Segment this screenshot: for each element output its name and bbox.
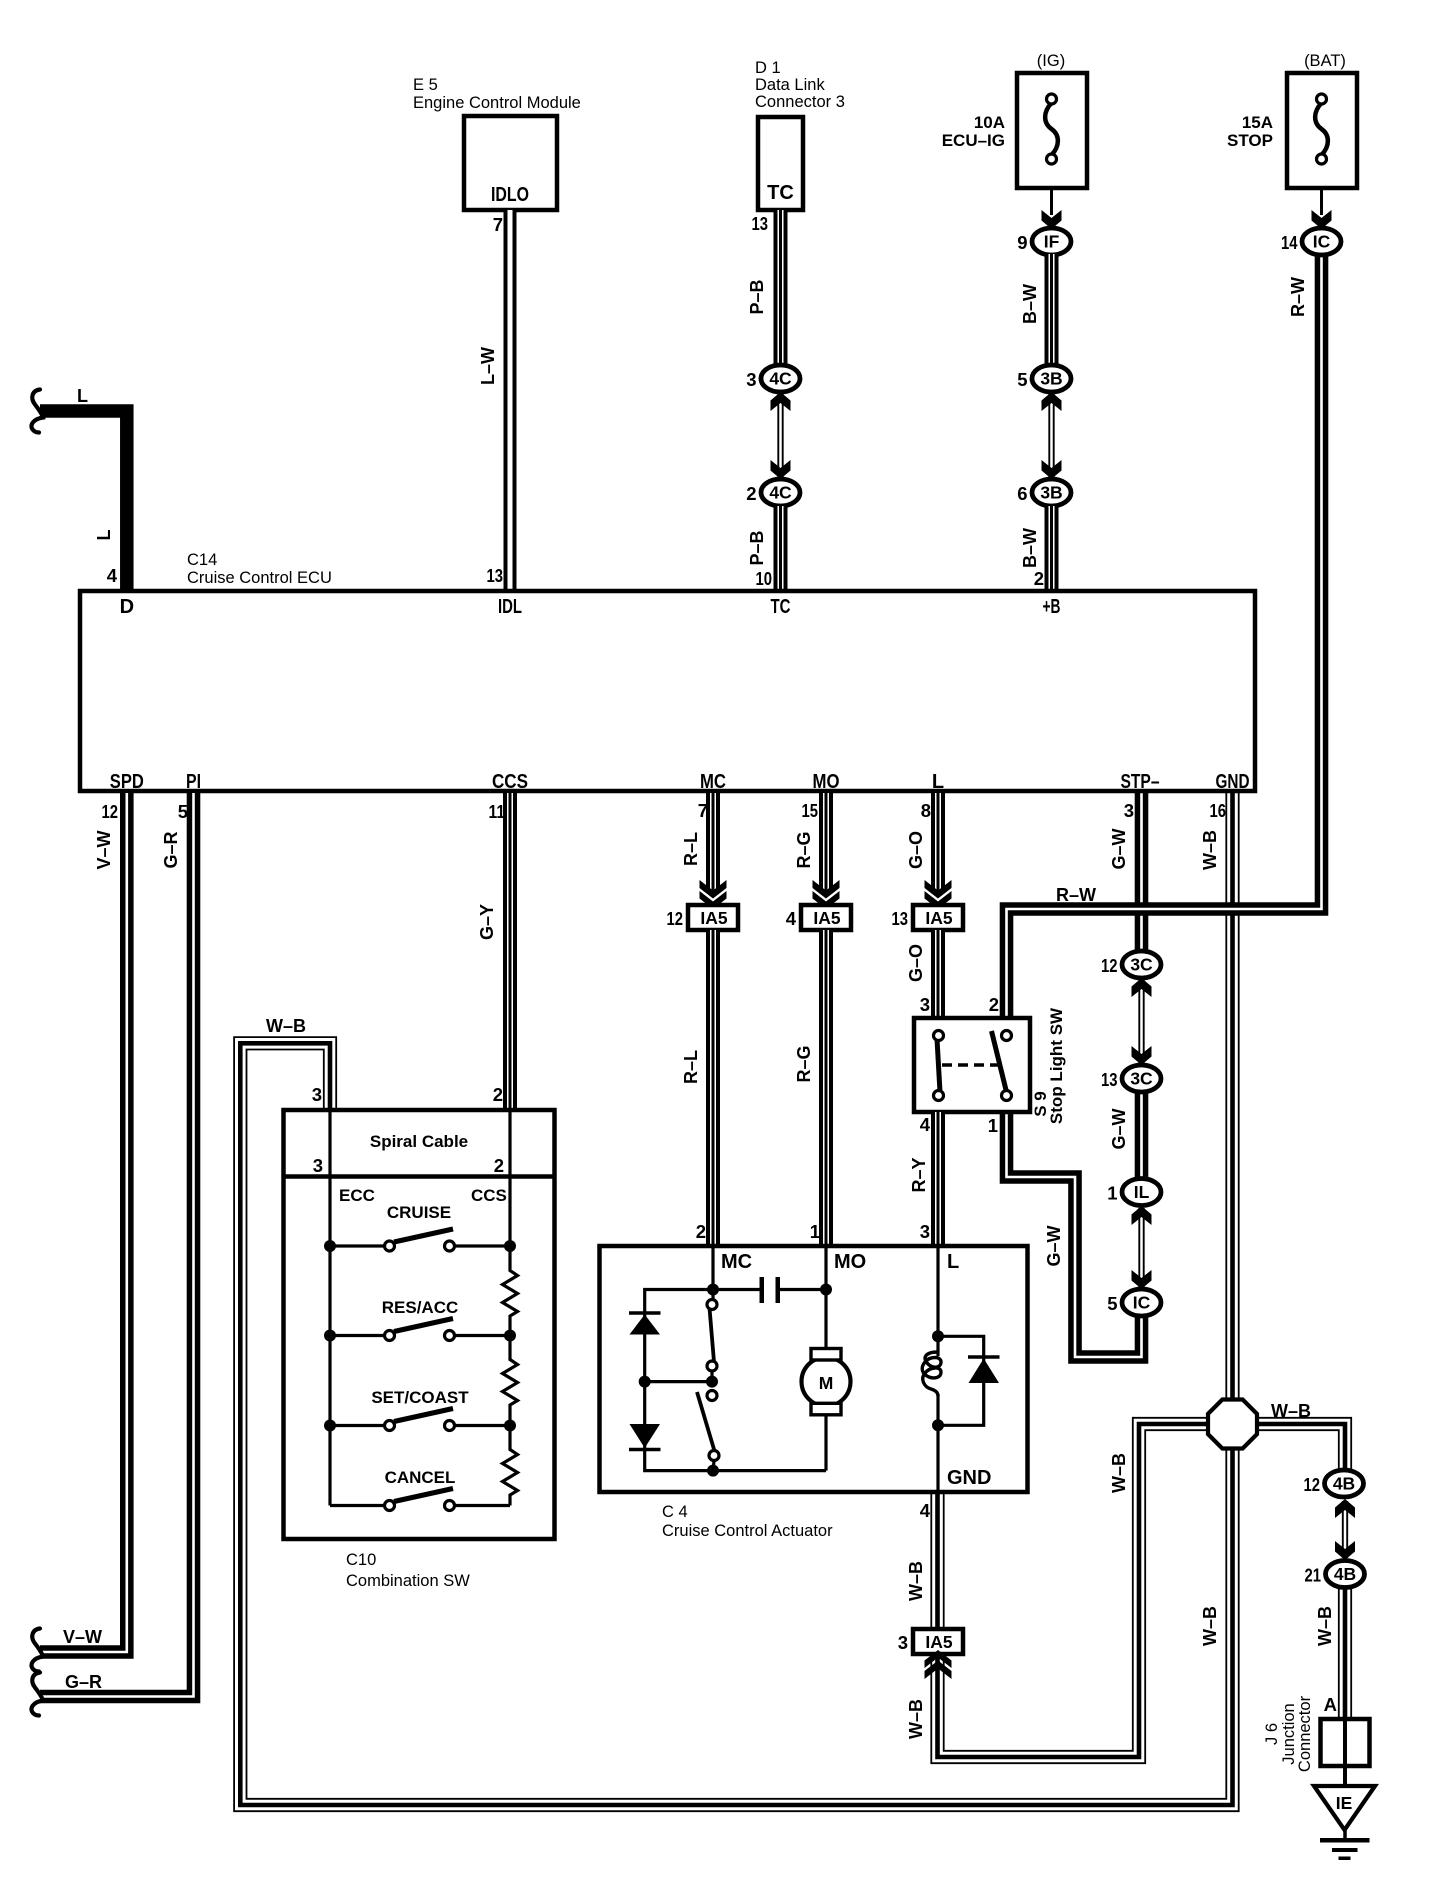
wire switch row right — [455, 1334, 511, 1337]
svg-text:4C: 4C — [769, 369, 792, 389]
stop light SW contact pin 3 — [934, 1031, 944, 1041]
svg-text:R–G: R–G — [794, 1045, 814, 1082]
svg-text:B–W: B–W — [1020, 528, 1040, 568]
svg-text:E 5: E 5 — [413, 76, 438, 94]
svg-text:W–B: W–B — [1200, 1606, 1220, 1646]
harness continuation brace (G-R) — [31, 1673, 43, 1716]
arrow into 13 IA5 — [925, 880, 952, 909]
harness continuation brace (V-W) — [31, 1629, 43, 1672]
connector 13 IA5 — [913, 905, 963, 930]
wire R-G from ECU MO pin 15 to 4 IA5 — [819, 793, 833, 891]
fuse 10A ECU-IG — [1017, 73, 1087, 188]
svg-text:M: M — [819, 1373, 834, 1393]
svg-text:Cruise Control ECU: Cruise Control ECU — [187, 569, 332, 587]
wire switch row left — [330, 1424, 385, 1427]
arrow into 3 4C — [771, 392, 791, 411]
connector 12 4B — [1325, 1470, 1364, 1497]
wire switch row left — [330, 1504, 385, 1507]
svg-text:(IG): (IG) — [1037, 52, 1065, 70]
svg-text:Engine Control Module: Engine Control Module — [413, 94, 581, 112]
wire B-W from 6 3B to ECU +B pin 2 — [1045, 506, 1059, 591]
svg-text:2: 2 — [494, 1155, 504, 1176]
stop light SW contact pin 1 — [1002, 1091, 1012, 1101]
arrow into 14 IC — [1312, 210, 1332, 229]
connector 9 IF — [1032, 228, 1071, 255]
wire switch row right — [455, 1504, 511, 1507]
svg-text:9: 9 — [1017, 232, 1027, 253]
connector 3 IA5 — [913, 1629, 963, 1654]
arrow into 21 4B — [1335, 1541, 1355, 1560]
wire switch row left — [330, 1334, 385, 1337]
svg-text:2: 2 — [696, 1221, 706, 1242]
svg-text:4: 4 — [920, 1500, 931, 1521]
wire G-O from 13 IA5 to stop light SW pin 3 — [931, 930, 945, 1019]
connector 5 3B — [1032, 365, 1071, 392]
svg-text:2: 2 — [1034, 568, 1044, 589]
arrow into 1 IL — [1132, 1206, 1152, 1225]
svg-text:5: 5 — [1107, 1293, 1117, 1314]
svg-text:P–B: P–B — [747, 530, 767, 565]
svg-text:D 1: D 1 — [755, 59, 781, 77]
svg-text:RES/ACC: RES/ACC — [382, 1298, 459, 1317]
contact MC top — [707, 1300, 717, 1310]
svg-text:4C: 4C — [769, 483, 792, 503]
spiral cable pass-through lines — [328, 1110, 331, 1177]
actuator MC branch — [711, 1246, 714, 1307]
svg-text:3B: 3B — [1040, 483, 1062, 503]
svg-text:IA5: IA5 — [813, 908, 841, 928]
svg-text:W–B: W–B — [906, 1699, 926, 1739]
ground IE triangle — [1314, 1786, 1375, 1830]
svg-text:STP–: STP– — [1121, 771, 1160, 793]
svg-text:IA5: IA5 — [925, 908, 953, 928]
contact lower top — [707, 1391, 717, 1401]
switch contact — [385, 1421, 395, 1431]
E5 Engine Control Module box — [464, 116, 557, 210]
svg-text:C14: C14 — [187, 551, 217, 569]
junction right bus — [504, 1420, 516, 1432]
arrow into 13 3C — [1132, 1046, 1152, 1065]
svg-text:W–B: W–B — [1271, 1401, 1311, 1421]
arrow into 3 IA5 — [925, 1650, 952, 1679]
svg-text:Data Link: Data Link — [755, 76, 825, 94]
svg-text:Combination SW: Combination SW — [346, 1572, 470, 1590]
C4 Cruise Control Actuator box — [600, 1246, 1028, 1492]
svg-text:L: L — [94, 530, 114, 541]
wire switch row left — [330, 1244, 385, 1247]
svg-text:16: 16 — [1210, 800, 1227, 821]
wire P-B from D1 TC pin 13 to connector 3 4C — [774, 210, 788, 366]
svg-text:W–B: W–B — [906, 1561, 926, 1601]
svg-text:10: 10 — [756, 568, 773, 589]
svg-text:Cruise Control Actuator: Cruise Control Actuator — [662, 1522, 833, 1540]
junction left bus — [324, 1420, 336, 1432]
L / GND branch — [936, 1246, 939, 1356]
wire B-W from 9 IF to 5 3B — [1045, 254, 1059, 366]
svg-text:13: 13 — [752, 213, 769, 234]
svg-text:G–O: G–O — [906, 831, 926, 869]
resistor (RES/ACC-SET/COAST) — [503, 1357, 518, 1407]
svg-text:4B: 4B — [1334, 1564, 1356, 1584]
switch contact — [385, 1501, 395, 1511]
wire R-G from 4 IA5 to actuator MO pin 1 — [819, 930, 833, 1244]
wire R-W from 14 IC to stop light SW pin 2 — [1007, 254, 1322, 1020]
arrow into 2 4C — [771, 460, 791, 479]
svg-text:2: 2 — [989, 994, 999, 1015]
wire W-B from octagon to connector 12 4B — [1233, 1424, 1346, 1471]
svg-text:W–B: W–B — [1109, 1453, 1129, 1493]
svg-text:7: 7 — [493, 214, 503, 235]
svg-text:C 4: C 4 — [662, 1503, 688, 1521]
arrow into 12 3C — [1132, 978, 1152, 997]
svg-text:STOP: STOP — [1227, 131, 1273, 150]
svg-text:GND: GND — [947, 1467, 991, 1489]
wire combination SW left bus (ECC) — [328, 1177, 331, 1506]
junction right bus — [504, 1330, 516, 1342]
svg-text:IDLO: IDLO — [491, 184, 529, 206]
svg-text:10A: 10A — [974, 113, 1005, 132]
svg-text:SPD: SPD — [110, 771, 144, 793]
wire L (thick) into ECU D pin 4 — [40, 411, 127, 591]
wire L-W from IDLO pin 7 to ECU IDL pin 13 — [504, 210, 517, 591]
diode D2 (down) — [630, 1424, 661, 1448]
svg-text:3: 3 — [1124, 800, 1134, 821]
node MO — [820, 1284, 832, 1296]
harness continuation brace (L) — [31, 390, 43, 433]
svg-text:D: D — [120, 596, 134, 618]
wire R-Y from stop light SW pin 4 to actuator L pin 3 — [931, 1112, 945, 1244]
svg-text:L: L — [932, 771, 944, 793]
wire W-B from connector 21 4B down to junction connector J6 — [1338, 1587, 1352, 1719]
svg-text:V–W: V–W — [63, 1627, 102, 1647]
S9 Stop Light SW box — [914, 1018, 1030, 1112]
wire G-W loop from 5 IC to stop light SW pin 1 — [1007, 1112, 1142, 1357]
arrow into 12 4B — [1335, 1499, 1355, 1518]
svg-text:TC: TC — [771, 596, 791, 618]
svg-text:4: 4 — [920, 1114, 931, 1135]
svg-text:ECC: ECC — [339, 1186, 375, 1205]
node switch mid — [706, 1376, 718, 1388]
svg-text:IL: IL — [1134, 1182, 1150, 1202]
svg-text:W–B: W–B — [266, 1016, 306, 1036]
svg-text:2: 2 — [493, 1084, 503, 1105]
svg-text:R–Y: R–Y — [909, 1157, 929, 1192]
svg-text:V–W: V–W — [94, 830, 114, 869]
svg-text:A: A — [1324, 1694, 1337, 1715]
svg-text:R–L: R–L — [681, 832, 701, 866]
connector 6 3B — [1032, 479, 1071, 506]
svg-text:2: 2 — [746, 483, 756, 504]
svg-text:J 6: J 6 — [1263, 1723, 1281, 1745]
svg-text:CANCEL: CANCEL — [385, 1468, 456, 1487]
svg-text:L–W: L–W — [478, 347, 498, 385]
svg-text:4B: 4B — [1333, 1474, 1355, 1494]
switch blade — [394, 1489, 453, 1502]
svg-text:IE: IE — [1336, 1793, 1353, 1813]
svg-text:+B: +B — [1043, 596, 1061, 618]
svg-text:3B: 3B — [1040, 369, 1062, 389]
svg-text:3C: 3C — [1130, 1069, 1153, 1089]
inductor coil — [922, 1352, 941, 1396]
svg-text:W–B: W–B — [1315, 1606, 1335, 1646]
switch blade upper — [710, 1308, 715, 1362]
arrow into 12 IA5 — [700, 880, 727, 909]
svg-text:MC: MC — [721, 1251, 752, 1273]
C14 Cruise Control ECU box — [80, 591, 1255, 791]
connector 14 IC — [1302, 228, 1341, 255]
svg-text:IDL: IDL — [498, 596, 522, 618]
C10 Combination SW / Spiral Cable box — [284, 1110, 555, 1539]
svg-text:IA5: IA5 — [700, 908, 728, 928]
wire fuse IG to 9 IF — [1050, 188, 1053, 215]
svg-text:15A: 15A — [1242, 113, 1273, 132]
J6 junction connector box — [1321, 1719, 1370, 1766]
svg-text:3: 3 — [920, 994, 930, 1015]
left branch to diodes — [645, 1290, 826, 1471]
switch blade — [394, 1319, 453, 1332]
svg-text:R–L: R–L — [681, 1050, 701, 1084]
svg-text:W–B: W–B — [1200, 830, 1220, 870]
stop light SW contact pin 2 — [1002, 1031, 1012, 1041]
node MC — [707, 1284, 719, 1296]
svg-text:IC: IC — [1313, 232, 1331, 252]
connector 5 IC — [1122, 1289, 1161, 1316]
svg-text:Stop Light SW: Stop Light SW — [1047, 1007, 1066, 1124]
junction left bus — [324, 1240, 336, 1252]
svg-text:12: 12 — [102, 801, 119, 822]
svg-text:G–Y: G–Y — [477, 904, 497, 940]
wire W-B ground bus from ECU GND pin 16 via octagon to spiral cable pin 3 — [240, 793, 1232, 1805]
svg-text:3: 3 — [920, 1221, 930, 1242]
wire G-O from ECU L pin 8 to 13 IA5 — [931, 793, 945, 891]
wire switch row right — [455, 1424, 511, 1427]
svg-text:5: 5 — [1017, 369, 1027, 390]
svg-text:L: L — [77, 386, 88, 406]
node L bottom — [932, 1419, 944, 1431]
svg-text:3: 3 — [746, 369, 756, 390]
svg-text:(BAT): (BAT) — [1304, 52, 1346, 70]
svg-text:G–W: G–W — [1044, 1225, 1064, 1266]
svg-text:TC: TC — [767, 182, 794, 204]
switch contact — [385, 1331, 395, 1341]
svg-text:5: 5 — [178, 801, 188, 822]
wire G-Y from ECU CCS pin 11 to spiral cable pin 2 — [503, 793, 517, 1110]
svg-text:MO: MO — [834, 1251, 866, 1273]
svg-text:SET/COAST: SET/COAST — [371, 1388, 469, 1407]
svg-text:CRUISE: CRUISE — [387, 1203, 451, 1222]
svg-text:21: 21 — [1305, 1565, 1322, 1586]
svg-text:L: L — [947, 1251, 959, 1273]
connector 12 3C — [1122, 951, 1161, 978]
svg-text:6: 6 — [1017, 483, 1027, 504]
svg-text:CCS: CCS — [492, 771, 528, 793]
diode D3 (up) across coil — [938, 1336, 984, 1425]
connector 13 3C — [1122, 1065, 1161, 1092]
svg-text:1: 1 — [988, 1115, 998, 1136]
svg-text:GND: GND — [1216, 771, 1250, 793]
svg-text:3: 3 — [898, 1632, 908, 1653]
arrow into 6 3B — [1042, 460, 1062, 479]
svg-text:IC: IC — [1133, 1293, 1151, 1313]
switch blade lower — [697, 1392, 715, 1451]
arrow into 9 IF — [1042, 210, 1062, 229]
wire fuse BAT to 14 IC — [1320, 188, 1323, 215]
svg-text:12: 12 — [1304, 1474, 1321, 1495]
svg-text:4: 4 — [107, 565, 118, 586]
switch blade — [394, 1229, 453, 1242]
arrow into 4 IA5 — [813, 880, 840, 909]
svg-text:11: 11 — [489, 801, 506, 822]
svg-text:3: 3 — [312, 1084, 322, 1105]
svg-text:1: 1 — [810, 1221, 820, 1242]
svg-text:G–R: G–R — [161, 831, 181, 868]
svg-text:MC: MC — [700, 771, 726, 793]
wire between 4C connectors — [777, 394, 779, 477]
connector 1 IL — [1122, 1179, 1161, 1206]
svg-text:Connector 3: Connector 3 — [755, 93, 845, 111]
arrow into 5 3B — [1042, 392, 1062, 411]
svg-text:R–W: R–W — [1056, 885, 1096, 905]
motor M — [802, 1357, 851, 1406]
svg-text:IF: IF — [1044, 232, 1060, 252]
svg-text:G–R: G–R — [65, 1672, 102, 1692]
connector 21 4B — [1326, 1561, 1365, 1588]
junction right bus — [504, 1240, 516, 1252]
svg-text:G–O: G–O — [906, 944, 926, 982]
wire switch row right — [455, 1244, 511, 1247]
svg-text:12: 12 — [1101, 955, 1118, 976]
svg-text:B–W: B–W — [1020, 284, 1040, 324]
wire P-B from 2 4C to ECU TC pin 10 — [774, 506, 788, 591]
junction left bus — [324, 1330, 336, 1342]
node bottom rail — [707, 1465, 719, 1477]
contact MC mid — [707, 1361, 717, 1371]
wire G-R from ECU PI pin 5 to harness brace — [40, 793, 194, 1697]
switch contact — [445, 1331, 455, 1341]
ground symbol — [1343, 1830, 1347, 1838]
svg-text:15: 15 — [802, 800, 819, 821]
arrow into 5 IC — [1132, 1270, 1152, 1289]
switch contact — [445, 1421, 455, 1431]
capacitor — [760, 1277, 765, 1303]
connector 4 IA5 — [801, 905, 851, 930]
svg-text:3C: 3C — [1130, 955, 1153, 975]
svg-text:13: 13 — [1101, 1069, 1118, 1090]
node left — [639, 1376, 651, 1388]
svg-text:PI: PI — [186, 771, 201, 793]
svg-text:12: 12 — [667, 908, 684, 929]
svg-text:13: 13 — [892, 908, 909, 929]
wire between 3B connectors — [1048, 394, 1050, 477]
svg-text:G–W: G–W — [1109, 1108, 1129, 1149]
resistor (CRUISE-RES/ACC) — [503, 1268, 518, 1318]
node L top — [932, 1330, 944, 1342]
wire V-W from ECU SPD pin 12 to harness brace — [40, 793, 127, 1652]
wire G-W from STP- pin 3 down to connector 12 3C — [1135, 793, 1149, 953]
resistor (SET/COAST-CANCEL) — [503, 1447, 518, 1497]
wire combination SW right bus (CCS) — [508, 1177, 511, 1247]
svg-text:8: 8 — [921, 800, 931, 821]
wire G-W between 13 3C and 1 IL — [1135, 1092, 1149, 1179]
diode D1 (up) — [629, 1311, 661, 1315]
stop light SW left blade — [937, 1039, 940, 1092]
switch contact — [445, 1241, 455, 1251]
svg-text:14: 14 — [1281, 232, 1298, 253]
wire R-L from ECU MC pin 7 to 12 IA5 — [706, 793, 720, 891]
svg-text:Connector: Connector — [1296, 1695, 1314, 1772]
connector 12 IA5 — [688, 905, 738, 930]
svg-text:13: 13 — [487, 565, 504, 586]
svg-text:CCS: CCS — [471, 1186, 507, 1205]
svg-text:C10: C10 — [346, 1551, 376, 1569]
svg-text:G–W: G–W — [1109, 828, 1129, 869]
svg-text:3: 3 — [313, 1155, 323, 1176]
svg-text:P–B: P–B — [747, 279, 767, 314]
svg-text:Spiral Cable: Spiral Cable — [370, 1132, 468, 1151]
wire W-B from actuator GND pin 4 to junction octagon — [938, 1424, 1233, 1757]
stop light SW dashed link — [942, 1063, 998, 1066]
svg-text:ECU–IG: ECU–IG — [942, 131, 1005, 150]
svg-text:MO: MO — [813, 771, 840, 793]
wire R-L from 12 IA5 to actuator MC pin 2 — [706, 930, 720, 1244]
stop light SW contact pin 4 — [934, 1091, 944, 1101]
fuse 15A STOP — [1287, 73, 1357, 188]
switch contact — [445, 1501, 455, 1511]
svg-text:R–W: R–W — [1288, 277, 1308, 317]
D1 Data Link Connector 3 box — [758, 117, 803, 210]
connector 2 4C — [761, 479, 800, 506]
svg-text:IA5: IA5 — [925, 1632, 953, 1652]
switch blade — [394, 1409, 453, 1422]
svg-text:R–G: R–G — [794, 831, 814, 868]
connector 3 4C — [761, 365, 800, 392]
switch contact — [385, 1241, 395, 1251]
stop light SW right blade — [992, 1031, 1007, 1092]
contact lower bottom — [709, 1451, 719, 1461]
svg-text:4: 4 — [786, 908, 797, 929]
junction connector octagon — [1208, 1400, 1257, 1449]
svg-text:1: 1 — [1107, 1183, 1117, 1204]
